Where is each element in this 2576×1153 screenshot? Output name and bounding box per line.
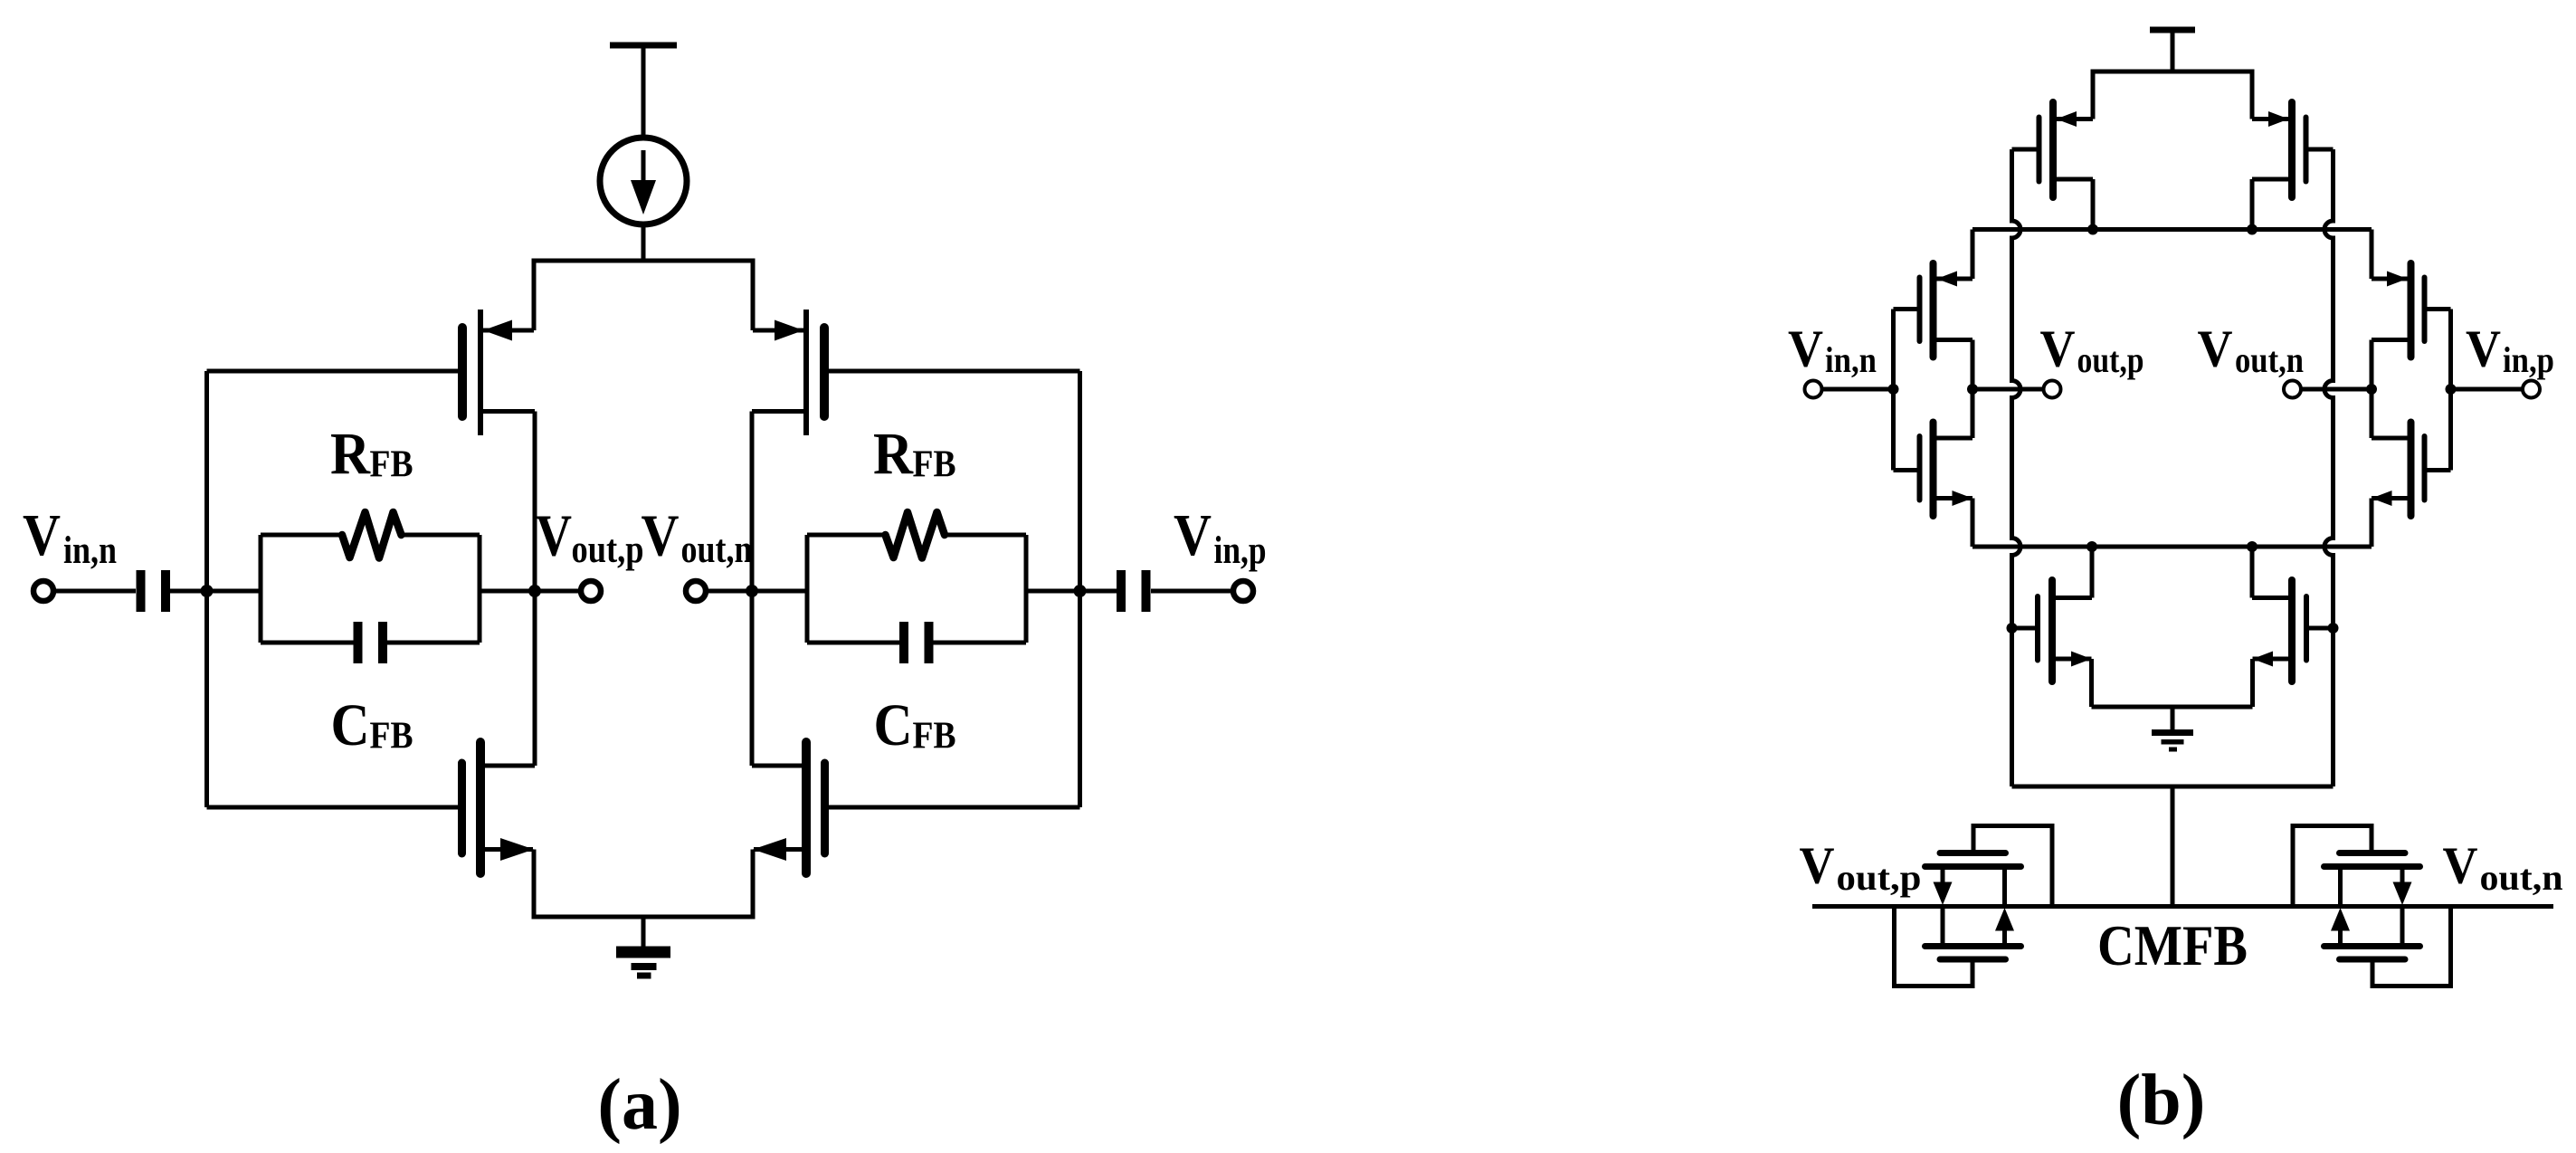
node output right: [746, 585, 758, 597]
wire VDD stem: [2171, 30, 2175, 71]
svg-text:out,p: out,p: [572, 529, 644, 571]
wire M2 drain to output node: [533, 591, 537, 766]
svg-text:(a): (a): [597, 1065, 681, 1145]
wire cap to input node B: [1026, 589, 1117, 594]
transistor M4b (right input NMOS): [2372, 423, 2425, 517]
wire lower rail (b): [1972, 545, 2372, 549]
wire output node to terminal: [535, 589, 581, 594]
wire M1 drain to output node: [533, 412, 537, 592]
wire left input gate bus: [1891, 310, 1896, 471]
node output right: [2366, 384, 2377, 395]
wire MC4 gate loop: [2372, 907, 2451, 986]
wire M4b source to lower rail: [2370, 499, 2374, 548]
svg-text:R: R: [330, 421, 371, 487]
wire box to output node left: [480, 589, 535, 594]
wire M4 source to bottom rail: [751, 850, 756, 918]
node M8b drain on lower rail: [2247, 541, 2258, 552]
VDD supply bar (b): [2150, 27, 2195, 33]
transistor M4 (right NMOS): [752, 742, 825, 873]
label CFB (right): [874, 692, 956, 758]
node M6 drain on mid rail: [2247, 224, 2258, 235]
wire cap to input node A: [170, 589, 261, 594]
label Vin,n (b): [1788, 319, 1877, 381]
wire left CMFB gate bus (with hops): [2012, 149, 2021, 786]
label Vin,p (a): [1174, 502, 1267, 572]
wire rail to M5 source: [2091, 71, 2096, 119]
capacitor CFB (left): [358, 622, 384, 663]
wire M4 gate: [829, 805, 1080, 810]
node M5 drain on mid rail: [2087, 224, 2098, 235]
wire M8b drain: [2250, 547, 2255, 598]
label Vout,p (b): [2040, 319, 2144, 381]
wire rail to M1 source: [532, 261, 537, 330]
svg-text:V: V: [536, 503, 572, 569]
wire M3b gate: [2428, 307, 2451, 311]
transistor M3 (right PMOS): [752, 310, 824, 435]
transistor MC3 (CMFB cap, top-right): [2324, 853, 2420, 907]
svg-text:out,n: out,n: [2480, 857, 2563, 898]
wire right gate bus: [1078, 371, 1082, 807]
svg-text:V: V: [1788, 319, 1823, 378]
wire M2 source to bottom rail: [532, 850, 537, 918]
wire rail to M6 source: [2250, 71, 2255, 119]
wire top rail (a): [532, 259, 756, 263]
svg-text:out,n: out,n: [681, 529, 753, 571]
node M7b drain on lower rail: [2086, 541, 2097, 552]
wire right CMFB gate bus (with hops): [2324, 149, 2334, 786]
svg-text:FB: FB: [913, 716, 956, 758]
node right gate bus / M8b gate: [2328, 623, 2339, 634]
svg-text:V: V: [2040, 319, 2076, 378]
wire mid rail (b): [1972, 227, 2372, 232]
transistor M8b (bottom-right NMOS load): [2252, 580, 2306, 681]
transistor MC1 (CMFB cap, top-left): [1925, 853, 2021, 907]
ground (b): [2152, 707, 2193, 752]
svg-text:FB: FB: [370, 716, 413, 758]
label Vin,p (b): [2466, 319, 2554, 381]
wire M1 gate: [207, 369, 459, 374]
wire MC3 gate loop: [2293, 826, 2372, 907]
wire rail to M3 source: [751, 261, 756, 330]
wire M3 drain to output node right: [750, 412, 755, 592]
wire MC2 gate loop: [1895, 907, 1973, 986]
node output left: [1967, 384, 1978, 395]
svg-text:out,p: out,p: [1837, 857, 1922, 898]
wire M6 drain: [2250, 179, 2255, 230]
wire input left to coupling cap: [53, 589, 136, 594]
svg-text:R: R: [873, 421, 914, 487]
wire M4b gate: [2428, 468, 2451, 472]
resistor RFB (right): [886, 512, 946, 558]
feedback network box right: [807, 535, 1026, 643]
wire M7b source: [2089, 659, 2094, 707]
label Vout,n (CMFB): [2443, 836, 2563, 899]
wire M7b drain: [2090, 547, 2095, 598]
svg-text:FB: FB: [370, 444, 413, 486]
svg-text:in,n: in,n: [1825, 339, 1877, 380]
svg-text:V: V: [2466, 319, 2501, 378]
wire output right: [2302, 387, 2372, 392]
svg-text:V: V: [23, 502, 61, 568]
wire input right: [2451, 387, 2524, 392]
node B (right input node): [1074, 585, 1087, 597]
svg-text:V: V: [1174, 502, 1212, 568]
terminal Vin,n (b): [1805, 381, 1822, 398]
svg-text:out,p: out,p: [2077, 339, 2144, 380]
wire CMFB sense line: [1812, 904, 2553, 909]
transistor M5 (top-left PMOS load): [2039, 102, 2094, 197]
wire M2b gate: [1894, 468, 1917, 472]
wire M4b drain to output node: [2370, 389, 2374, 438]
svg-text:CMFB: CMFB: [2097, 914, 2248, 977]
label CFB (left): [331, 692, 413, 758]
node left gate bus / M7b gate: [2007, 623, 2018, 634]
transistor MC2 (CMFB cap, bottom-left): [1925, 907, 2021, 960]
wire input right to coupling cap: [1151, 589, 1233, 594]
wire VDD to current source: [642, 45, 646, 138]
label Vout,n (a): [642, 503, 753, 572]
svg-text:FB: FB: [913, 444, 956, 486]
transistor M6 (top-right PMOS load): [2252, 102, 2306, 197]
wire bottom rail (a): [532, 915, 756, 920]
terminal Vin,p (b): [2523, 381, 2540, 398]
wire M5 drain: [2091, 179, 2096, 230]
wire M3b drain to output node: [2370, 340, 2374, 390]
wire terminal to output node right: [706, 589, 752, 594]
label Vout,p (a): [536, 503, 644, 572]
wire M8b gate: [2309, 626, 2334, 631]
capacitor CFB (right): [904, 622, 929, 663]
transistor M7b (bottom-left NMOS load): [2038, 580, 2092, 681]
svg-text:V: V: [2198, 319, 2233, 378]
wire tail rail (b): [2092, 705, 2253, 710]
transistor M2b (left input NMOS): [1920, 423, 1973, 517]
svg-text:(b): (b): [2117, 1061, 2206, 1140]
wire M7b gate: [2012, 626, 2036, 631]
transistor M1b (left input PMOS): [1920, 263, 1973, 357]
wire M1b gate: [1894, 307, 1917, 311]
wire M3 gate: [829, 369, 1080, 374]
wire left gate bus: [204, 371, 209, 807]
resistor RFB (left): [342, 512, 402, 558]
label Vout,p (CMFB): [1800, 836, 1922, 899]
svg-text:in,n: in,n: [63, 529, 117, 572]
svg-text:V: V: [2443, 836, 2478, 895]
svg-text:in,p: in,p: [2503, 339, 2554, 380]
feedback network box left: [261, 535, 480, 643]
node output left: [528, 585, 541, 597]
wire output left: [1972, 387, 2043, 392]
VDD supply bar (a): [610, 43, 677, 49]
wire M5 gate: [2012, 148, 2037, 152]
transistor M3b (right input PMOS): [2372, 263, 2425, 357]
terminal Vout,n (a): [686, 581, 706, 601]
wire box to output node right: [752, 589, 807, 594]
wire M4 drain to output node right: [750, 591, 755, 766]
wire top rail (b): [2091, 70, 2255, 74]
ground (a): [616, 917, 670, 979]
transistor MC4 (CMFB cap, bottom-right): [2324, 907, 2420, 960]
label RFB (left): [330, 421, 413, 487]
label Vout,n (b): [2198, 319, 2305, 381]
current source I1: [600, 138, 687, 224]
svg-text:in,p: in,p: [1214, 529, 1267, 572]
terminal Vout,p (b): [2044, 381, 2061, 398]
label RFB (right): [873, 421, 956, 487]
wire current source to top rail: [642, 224, 646, 261]
svg-text:C: C: [874, 692, 913, 758]
wire CMFB bus to CMFB node: [2171, 786, 2175, 907]
wire M8b source: [2250, 659, 2255, 707]
transistor M1 (left PMOS): [462, 310, 535, 435]
terminal Vin,p (a): [1233, 581, 1253, 601]
wire M2 gate: [207, 805, 459, 810]
wire M2b source to lower rail: [1971, 499, 1975, 548]
wire right input gate bus: [2448, 310, 2453, 471]
node right input: [2446, 384, 2457, 395]
node A (left input node): [201, 585, 214, 597]
capacitor C1 (input coupling, left): [141, 570, 166, 612]
wire input left: [1822, 387, 1894, 392]
transistor M2 (left NMOS): [462, 742, 536, 873]
capacitor C2 (input coupling, right): [1121, 570, 1146, 612]
terminal Vout,n (b): [2284, 381, 2301, 398]
svg-text:C: C: [331, 692, 370, 758]
wire mid rail end to M3b source: [2370, 230, 2374, 280]
wire M1b drain to output node: [1971, 340, 1975, 390]
svg-text:V: V: [1800, 836, 1835, 895]
terminal Vout,p (a): [581, 581, 601, 601]
node left input: [1888, 384, 1899, 395]
terminal Vin,n (a): [33, 581, 53, 601]
wire mid rail end to M1b source: [1971, 230, 1975, 280]
wire M2b drain to output node: [1971, 389, 1975, 438]
wire M6 gate: [2309, 148, 2334, 152]
wire MC1 gate loop: [1973, 826, 2052, 907]
svg-text:V: V: [642, 503, 680, 569]
label Vin,n (a): [23, 502, 117, 572]
wire CMFB bus rail: [2012, 785, 2334, 789]
svg-text:out,n: out,n: [2235, 339, 2304, 380]
